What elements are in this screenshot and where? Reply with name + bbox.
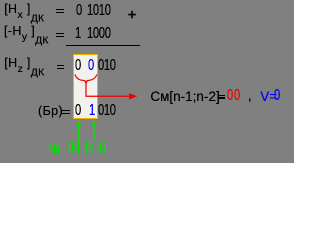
annotation comma <box>248 88 252 103</box>
arrow stem down from brace <box>86 83 130 96</box>
green label [k-1] <box>85 139 107 154</box>
line 4 carry digit 1 (blue) <box>89 102 95 120</box>
line 1 digits 1010 <box>87 2 111 20</box>
line 1 sign digit 0 <box>76 2 82 20</box>
line 1 equals sign <box>56 9 64 10</box>
line 3 digits 010 <box>98 57 116 75</box>
line 4 label (Бр)= <box>38 104 63 118</box>
sum rule (vinculum) <box>66 45 140 47</box>
annotation text См[n-1;n-2] <box>150 89 219 104</box>
line 2 digits 1000 <box>87 25 111 43</box>
line 2 label [-Hy]ДК <box>4 24 49 46</box>
red arrowhead <box>129 93 137 100</box>
green arrow to bit k <box>76 120 81 141</box>
line 4 sign digit 0 <box>75 102 81 120</box>
red underbrace and arrow to annotation <box>0 0 294 163</box>
line 3 sign digit 0 <box>75 57 81 75</box>
line 1 label [Hx]ДК <box>4 2 44 24</box>
green label № <box>48 141 60 156</box>
green label [k] <box>68 139 80 154</box>
line 2 sign digit 1 <box>75 25 81 43</box>
green arrow to bit k-1 <box>91 120 96 141</box>
annotation equals sign <box>218 95 225 96</box>
plus operator <box>126 8 140 22</box>
annotation red carry values 00 <box>227 87 233 105</box>
line 4 digits 010 <box>98 102 116 120</box>
line 3 overflow-check digit 0 (blue) <box>88 57 94 75</box>
line 3 label [Hz]ДК <box>4 56 44 78</box>
line 4 equals sign <box>61 110 70 111</box>
underbrace under the two boxed bits <box>75 74 97 83</box>
annotation 0 (blue) <box>274 87 280 105</box>
line 3 equals sign <box>57 65 64 66</box>
line 2 equals sign <box>56 33 65 34</box>
annotation V= (blue) <box>260 89 277 104</box>
highlight box around the two control bit columns <box>73 54 99 119</box>
